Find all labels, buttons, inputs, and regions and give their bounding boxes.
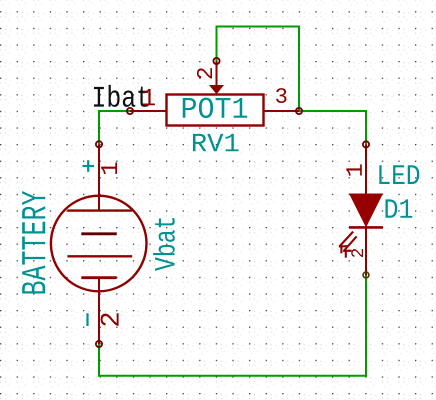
polarity minus sign (rotated) — [86, 313, 88, 326]
battery V1 plate long top — [67, 209, 132, 211]
potentiometer RV1 pin 2 (wiper) — [216, 61, 218, 87]
battery V1 plate short bottom — [81, 276, 116, 279]
value label Vbat (vertical) — [153, 218, 175, 271]
battery V1 plate short upper — [81, 232, 116, 235]
wire net Ibat segment: POT1 pin1 junction to battery pin1 junction — [99, 111, 130, 144]
value label LED — [379, 165, 419, 184]
pin number 2 of LED D1 — [351, 249, 363, 257]
battery V1 circle body — [51, 196, 147, 292]
junction at battery pin2 — [96, 341, 102, 347]
LED D1 cathode bar — [349, 226, 383, 229]
battery V1 pin 1 lead — [98, 144, 100, 210]
name label BATTERY (vertical) — [22, 191, 45, 294]
junction at POT1 pin3 — [296, 108, 302, 114]
pin number 2 of RV1 — [197, 68, 212, 78]
battery V1 plate long lower — [67, 255, 132, 257]
pin number 3 of RV1 — [276, 88, 286, 103]
LED D1 emission arrow upper — [340, 232, 353, 252]
net label Ibat — [94, 85, 148, 107]
junction at battery pin1 — [96, 141, 102, 147]
name label D1 — [385, 199, 412, 217]
pin number 1 of RV1 — [143, 89, 155, 105]
potentiometer RV1 body — [167, 95, 264, 126]
junction at POT1 pin1 / net Ibat — [127, 108, 133, 114]
wire net N$1 segment: POT1 pin2 top loop to POT1 pin3 junction — [217, 27, 300, 112]
potentiometer RV1 pin 3 — [264, 110, 299, 112]
pin number 1 of battery — [101, 162, 117, 174]
LED D1 anode triangle — [349, 194, 383, 228]
LED D1 emission arrow lower — [344, 237, 356, 256]
value label POT1 — [183, 98, 247, 118]
battery V1 pin 2 lead — [98, 278, 100, 344]
junction at POT1 pin2 — [213, 58, 219, 64]
pin number 1 of LED D1 — [346, 164, 361, 175]
potentiometer RV1 pin 1 — [130, 110, 166, 112]
junction at LED pin2 — [363, 272, 369, 278]
wire net N$1 segment: POT1 pin3 junction to LED pin1 junction — [299, 111, 366, 144]
LED D1 pin 2 lead — [365, 229, 367, 276]
polarity plus sign — [83, 160, 95, 172]
potentiometer RV1 wiper arrowhead — [209, 85, 224, 94]
junction at LED pin1 — [363, 141, 369, 147]
name label RV1 — [193, 134, 239, 151]
pin number 2 of battery — [101, 313, 119, 325]
LED D1 pin 1 lead — [365, 144, 367, 194]
wire net N$2 segment: LED pin2 junction to battery pin2 junction — [99, 275, 366, 376]
